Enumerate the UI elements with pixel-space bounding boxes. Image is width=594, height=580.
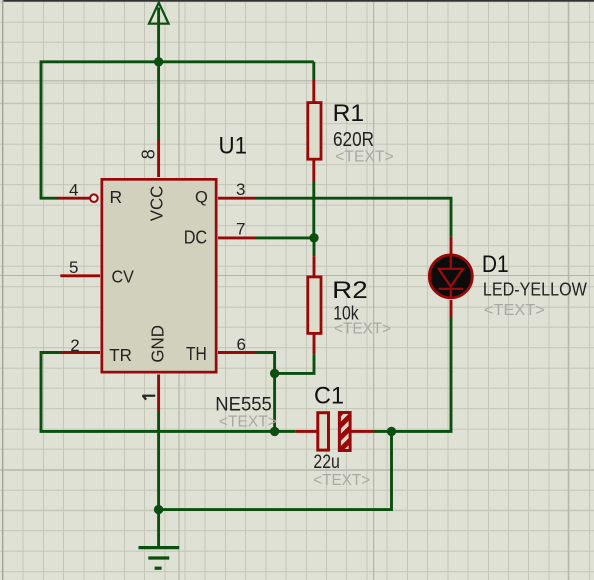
svg-text:C1: C1 — [314, 383, 344, 410]
svg-text:3: 3 — [236, 180, 245, 199]
svg-text:<TEXT>: <TEXT> — [219, 413, 277, 430]
svg-text:LED-YELLOW: LED-YELLOW — [483, 278, 587, 299]
svg-text:8: 8 — [139, 149, 159, 159]
svg-text:<TEXT>: <TEXT> — [484, 302, 545, 319]
svg-text:CV: CV — [112, 266, 135, 286]
svg-text:VCC: VCC — [147, 186, 167, 222]
svg-text:<TEXT>: <TEXT> — [313, 472, 370, 489]
svg-text:6: 6 — [237, 335, 246, 354]
svg-text:TH: TH — [186, 344, 207, 364]
svg-text:4: 4 — [69, 180, 78, 199]
svg-text:DC: DC — [184, 226, 208, 247]
svg-text:TR: TR — [109, 345, 132, 365]
svg-text:D1: D1 — [482, 251, 509, 278]
svg-text:2: 2 — [70, 336, 79, 355]
svg-text:U1: U1 — [219, 133, 248, 160]
svg-text:5: 5 — [69, 258, 78, 277]
svg-text:7: 7 — [236, 220, 245, 239]
svg-text:<TEXT>: <TEXT> — [334, 320, 391, 337]
svg-text:<TEXT>: <TEXT> — [335, 148, 394, 165]
svg-text:22u: 22u — [313, 452, 340, 473]
svg-text:R2: R2 — [332, 277, 368, 304]
svg-text:Q: Q — [195, 189, 208, 207]
svg-text:GND: GND — [147, 325, 167, 363]
svg-text:R: R — [110, 187, 123, 207]
svg-text:R1: R1 — [333, 100, 365, 127]
